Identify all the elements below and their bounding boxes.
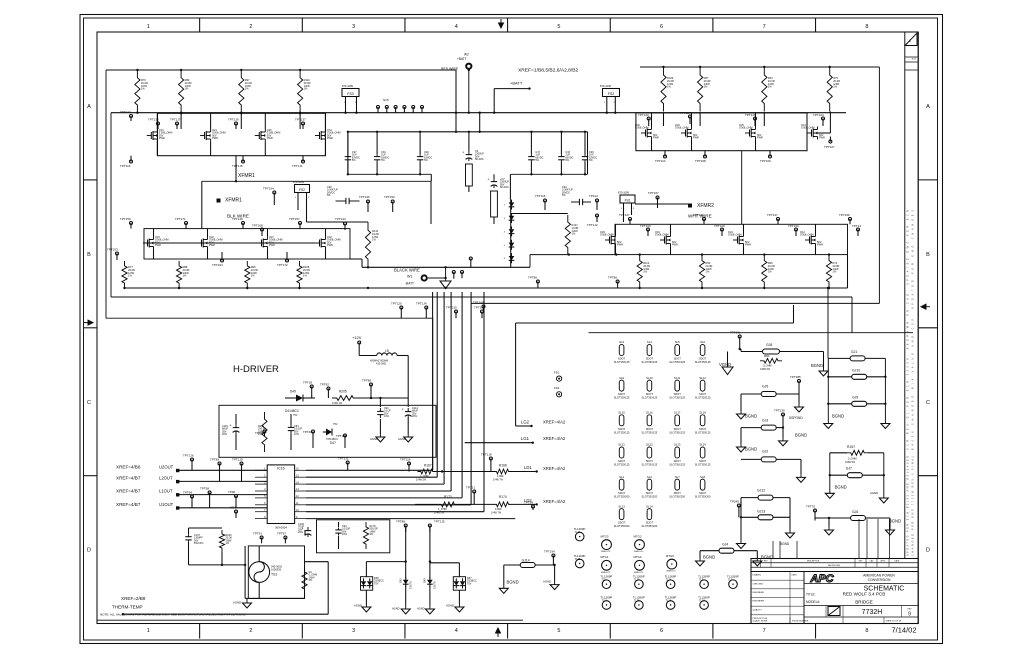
svg-text:D43: D43 <box>423 578 427 583</box>
wire cap bank rails <box>348 112 588 200</box>
svg-text:SDOT: SDOT <box>646 427 654 431</box>
svg-text:TPT127: TPT127 <box>619 213 630 217</box>
resistor R76 <box>135 69 148 114</box>
ground AGND TS1 <box>233 598 252 608</box>
svg-text:FS1: FS1 <box>625 199 631 203</box>
svg-text:SL4: SL4 <box>647 340 652 344</box>
svg-text:LG2: LG2 <box>521 420 530 425</box>
svg-text:D: D <box>926 548 930 554</box>
svg-text:GJ9: GJ9 <box>852 396 858 400</box>
svg-text:2: 2 <box>249 628 252 634</box>
resistor R87 <box>698 66 711 112</box>
svg-text:XREF=4/B7: XREF=4/B7 <box>116 502 141 507</box>
svg-text:TPT152: TPT152 <box>384 195 395 199</box>
svg-text:0.008_OHM: 0.008_OHM <box>635 127 648 130</box>
wire fetbox to xfmr <box>235 156 237 183</box>
svg-text:XREF=4/A2: XREF=4/A2 <box>543 436 566 441</box>
capacitor C114 <box>402 398 419 434</box>
testpoint TPT116m <box>535 194 547 210</box>
resistor R144 <box>307 222 380 268</box>
svg-text:TPT164: TPT164 <box>212 263 223 267</box>
wire gj13 down <box>741 517 790 540</box>
svg-text:TL12: TL12 <box>575 558 581 561</box>
testpoint TPT46 <box>303 430 315 448</box>
wire FET leads left box <box>157 113 325 155</box>
svg-text:TPT86: TPT86 <box>608 276 617 280</box>
wire stair 2 <box>111 113 852 333</box>
testpoint TPT21 <box>466 486 476 505</box>
svg-text:TPT1J5: TPT1J5 <box>434 520 445 524</box>
testpoint TPT1J1c <box>338 457 349 471</box>
svg-text:TPT88: TPT88 <box>362 379 371 383</box>
center mark arrow left <box>84 320 93 325</box>
testpoint TPT91b <box>253 532 263 544</box>
node W2 drop <box>468 69 470 114</box>
svg-text:L5: L5 <box>385 349 389 353</box>
note text <box>100 613 246 617</box>
ground BGND gj left <box>824 421 833 429</box>
svg-text:TPT1J2: TPT1J2 <box>587 223 598 227</box>
svg-text:SL23: SL23 <box>674 443 681 447</box>
svg-text:SDOT: SDOT <box>674 392 682 396</box>
pad TL7 <box>727 575 739 589</box>
svg-text:TPT88: TPT88 <box>396 520 405 524</box>
svg-text:SL21: SL21 <box>618 443 625 447</box>
svg-text:TPT107: TPT107 <box>824 145 835 149</box>
resistor GJ14 <box>504 559 556 586</box>
svg-text:XFMR1: XFMR1 <box>238 173 255 179</box>
svg-text:GJ13: GJ13 <box>757 510 765 514</box>
svg-text:GJ6: GJ6 <box>852 510 858 514</box>
center mark arrow right <box>921 304 930 309</box>
svg-text:TPT1J6: TPT1J6 <box>183 454 194 458</box>
ground BGND gj right <box>881 421 890 429</box>
testpoint posts near W1 <box>452 257 472 279</box>
svg-text:MTG3: MTG3 <box>601 535 609 539</box>
resistor R1 <box>245 567 317 598</box>
svg-text:+BATT: +BATT <box>510 81 523 86</box>
svg-text:TL8: TL8 <box>699 579 704 582</box>
svg-text:TPT46: TPT46 <box>303 430 312 434</box>
testpoint TPT13 <box>852 224 861 236</box>
svg-text:TPT153: TPT153 <box>107 248 118 252</box>
svg-text:7732H: 7732H <box>862 609 883 616</box>
svg-text:SL18: SL18 <box>699 411 706 415</box>
svg-text:AGND: AGND <box>233 601 241 605</box>
pad TL15 <box>633 596 645 610</box>
svg-text:PWR: PWR <box>327 244 333 247</box>
wire gate bus <box>111 112 846 114</box>
svg-text:PWR: PWR <box>745 244 751 247</box>
svg-text:TPT120: TPT120 <box>638 113 649 117</box>
fiducial FD1 <box>554 371 562 382</box>
ground BGND gj3 <box>779 433 808 446</box>
svg-text:2: 2 <box>249 24 252 30</box>
testpoint TPT101 <box>336 434 347 448</box>
svg-text:PWR: PWR <box>209 244 215 247</box>
svg-text:TL13: TL13 <box>634 579 640 582</box>
capacitor C93 <box>288 414 303 450</box>
fuse FS3 <box>342 84 359 114</box>
svg-text:+BATT: +BATT <box>457 57 467 61</box>
svg-text:TPT122: TPT122 <box>120 110 131 114</box>
svg-text:TPT116: TPT116 <box>400 458 411 462</box>
testpoint TPT1J6 <box>183 454 194 471</box>
svg-text:SDOT: SDOT <box>699 427 707 431</box>
svg-text:GJ3: GJ3 <box>762 419 768 423</box>
svg-text:TPT21: TPT21 <box>466 486 475 490</box>
testpoint TPT88b <box>396 520 407 533</box>
svg-text:SL15: SL15 <box>618 411 625 415</box>
svg-text:R84: R84 <box>764 354 770 358</box>
svg-text:5: 5 <box>557 24 560 30</box>
label XFMR2 <box>635 203 714 209</box>
center mark arrow top <box>499 19 504 28</box>
testpoint TPT137 <box>295 118 306 130</box>
svg-text:XFMR1: XFMR1 <box>225 198 242 204</box>
resistor R110 <box>298 69 311 114</box>
svg-text:ES07A: ES07A <box>410 581 413 589</box>
testpoint ND1 <box>230 506 238 519</box>
svg-text:D49: D49 <box>290 390 296 394</box>
svg-text:SDOT: SDOT <box>618 459 626 463</box>
svg-text:H-DRIVER: H-DRIVER <box>233 364 279 375</box>
testpoint TPT89 <box>210 458 221 482</box>
svg-text:SL9: SL9 <box>619 376 624 380</box>
testpoint TPT385 <box>790 375 801 394</box>
svg-text:TPT101: TPT101 <box>336 434 347 438</box>
testpoint TPT1J2 <box>587 214 599 227</box>
svg-text:TPT97: TPT97 <box>277 532 286 536</box>
testpoint TPT70 <box>806 505 817 521</box>
transistor Q20 <box>675 124 699 140</box>
svg-text:C: C <box>87 400 91 406</box>
svg-text:0.008_OHM: 0.008_OHM <box>655 234 668 237</box>
svg-text:SDOT: SDOT <box>646 392 654 396</box>
resistor R77 <box>122 261 135 289</box>
svg-text:BGND: BGND <box>703 555 715 560</box>
svg-text:MTG4: MTG4 <box>634 555 642 559</box>
svg-text:TPT194: TPT194 <box>544 550 555 554</box>
svg-text:SDOT: SDOT <box>618 392 626 396</box>
svg-text:1/4W 5%: 1/4W 5% <box>416 479 427 482</box>
svg-text:20%: 20% <box>222 433 228 436</box>
wire LG1 net <box>465 436 566 444</box>
wire vertical bundle <box>433 292 484 512</box>
svg-text:SL22: SL22 <box>646 443 653 447</box>
svg-text:SDOT: SDOT <box>674 491 682 495</box>
svg-text:TPT149: TPT149 <box>232 217 243 221</box>
svg-text:TPT1J4: TPT1J4 <box>416 302 427 306</box>
resistor GJ8 <box>739 343 801 354</box>
svg-text:TPT239: TPT239 <box>774 409 785 413</box>
testpoint TPT167 <box>648 191 659 208</box>
svg-text:+: + <box>402 408 404 412</box>
ground at W1 <box>440 266 451 288</box>
svg-text:BGND: BGND <box>795 433 807 438</box>
resistor R94 <box>762 66 775 112</box>
pad TL12 <box>574 554 586 568</box>
svg-text:GJ14: GJ14 <box>522 559 530 563</box>
label XFMR1 second <box>217 198 243 204</box>
svg-text:1: 1 <box>909 39 911 43</box>
testpoint TPT1J4b <box>416 302 428 319</box>
node N15 posts <box>377 98 424 113</box>
label BGND gj6 <box>889 519 901 524</box>
wire LG2 net <box>516 323 566 427</box>
svg-text:SL7: SL7 <box>675 475 680 479</box>
svg-text:NOTE: ALL VALUES ARE FOR REFER: NOTE: ALL VALUES ARE FOR REFERENCE ONLY.… <box>100 613 246 617</box>
wire drops right box <box>664 113 765 126</box>
transistor Q14 <box>147 129 172 142</box>
resistor GJ13 <box>740 510 790 520</box>
svg-text:FD2: FD2 <box>554 386 560 390</box>
svg-text:75V: 75V <box>293 414 298 417</box>
svg-text:369-0004: 369-0004 <box>275 526 287 530</box>
svg-text:6: 6 <box>660 628 663 634</box>
svg-text:TPT147: TPT147 <box>767 213 778 217</box>
pad TL14 <box>601 596 613 610</box>
testpoint TPT152 <box>384 195 395 212</box>
capacitor C26 <box>582 131 597 176</box>
capacitor C47 <box>528 131 543 176</box>
svg-text:XREF=4/B6: XREF=4/B6 <box>116 464 141 469</box>
testpoint TPT1J9 <box>228 118 239 130</box>
svg-text:TPT157: TPT157 <box>289 217 300 221</box>
svg-text:SCALE: NONE: SCALE: NONE <box>753 620 768 623</box>
svg-text:SL11: SL11 <box>674 376 681 380</box>
label U2OUT <box>116 464 267 472</box>
svg-text:TPT18: TPT18 <box>303 381 312 385</box>
wire right h4 <box>516 305 794 323</box>
testpoint TPT1J5b <box>232 156 245 168</box>
svg-text:SMBOLT0: SMBOLT0 <box>601 572 611 574</box>
wire top-right rail <box>640 67 879 303</box>
svg-text:A: A <box>87 104 91 110</box>
svg-text:MODEL#:: MODEL#: <box>806 600 820 604</box>
fuse FS2b <box>293 180 310 222</box>
svg-text:XREF=2/B8: XREF=2/B8 <box>121 596 146 601</box>
svg-text:TPT82: TPT82 <box>320 383 329 387</box>
ground gj6 r <box>886 527 895 535</box>
svg-text:5: 5 <box>557 628 560 634</box>
svg-text:1/4W 1%: 1/4W 1% <box>332 402 343 405</box>
svg-text:1/4W 7%: 1/4W 7% <box>491 512 502 515</box>
svg-text:AGND: AGND <box>870 491 878 495</box>
inductor L5 <box>359 349 408 398</box>
slot row SL3 <box>614 340 711 364</box>
svg-text:ES07A: ES07A <box>434 581 437 589</box>
wire FET leads midleft box <box>154 229 326 259</box>
svg-text:20%: 20% <box>298 531 304 534</box>
date 7/14/02 <box>891 626 916 635</box>
svg-text:XREF=4/A2: XREF=4/A2 <box>543 420 566 425</box>
svg-text:SLOT35X200: SLOT35X200 <box>669 495 685 499</box>
svg-text:RED WOLF 3.4 PCB: RED WOLF 3.4 PCB <box>843 592 886 597</box>
svg-text:70V: 70V <box>374 582 379 585</box>
svg-text:PWR: PWR <box>327 137 333 140</box>
ground arrow gj4 left <box>737 541 746 549</box>
svg-text:MTG1: MTG1 <box>601 555 609 559</box>
svg-text:SMBOLT0: SMBOLT0 <box>634 551 644 553</box>
center mark arrow bottom <box>496 628 501 637</box>
transistor Q24 <box>728 231 751 247</box>
svg-text:TPT193: TPT193 <box>788 224 799 228</box>
svg-text:R157: R157 <box>847 445 855 449</box>
svg-text:PWR: PWR <box>159 137 165 140</box>
resistor GJ9 <box>828 396 885 407</box>
svg-text:SDOT: SDOT <box>674 459 682 463</box>
fuse FS1 <box>618 191 635 223</box>
box top-right MOSFETs <box>636 113 807 151</box>
resistor GJ3 <box>741 419 784 445</box>
svg-text:BGND: BGND <box>811 363 823 368</box>
svg-text:TPT135: TPT135 <box>148 118 159 122</box>
testpoint TPT157 <box>289 217 302 229</box>
transformer XFMR1 outline <box>202 181 431 228</box>
svg-text:3: 3 <box>352 24 355 30</box>
svg-text:TL11: TL11 <box>666 579 672 582</box>
svg-text:SL10: SL10 <box>646 376 653 380</box>
slot row SL21 <box>614 443 711 467</box>
wire mid-right bottom rail <box>847 255 849 288</box>
resistor GJ12 <box>741 489 790 518</box>
pad MTG2 <box>634 535 645 554</box>
ground AGND D43 <box>417 606 434 614</box>
svg-text:SLOT35X200: SLOT35X200 <box>642 495 658 499</box>
svg-text:SDOT: SDOT <box>699 491 707 495</box>
svg-text:DSPGND: DSPGND <box>789 416 803 420</box>
svg-text:PWR: PWR <box>817 244 823 247</box>
transistor Q31 <box>315 129 340 142</box>
svg-text:SL12: SL12 <box>699 376 706 380</box>
diode D58 <box>361 560 407 604</box>
svg-text:CONVERSION: CONVERSION <box>868 578 891 582</box>
svg-text:PWR: PWR <box>672 244 678 247</box>
svg-text:BRIDGE: BRIDGE <box>855 599 873 604</box>
drawing frame <box>97 32 918 624</box>
svg-text:D47: D47 <box>330 441 336 445</box>
ground AGND D58 <box>354 604 371 613</box>
testpoint TPT135 <box>148 118 160 130</box>
svg-text:TPT1J5: TPT1J5 <box>232 164 243 168</box>
svg-text:TPT80: TPT80 <box>528 276 537 280</box>
testpoint TP249 <box>730 500 740 518</box>
ground DSPGND <box>789 404 804 420</box>
svg-text:TL16: TL16 <box>666 600 672 603</box>
testpoint TPT120b <box>391 302 403 319</box>
svg-text:B: B <box>87 252 91 258</box>
svg-text:TPT154: TPT154 <box>263 187 274 191</box>
resistor R168 <box>493 464 566 482</box>
diode D43 <box>423 540 437 606</box>
svg-text:+: + <box>488 178 490 182</box>
terminal W1 black wire <box>394 268 447 286</box>
resistor GJ4 <box>700 543 757 559</box>
svg-text:IC16: IC16 <box>277 467 285 471</box>
svg-text:C: C <box>926 400 930 406</box>
svg-text:W2: W2 <box>464 53 469 57</box>
label H-DRIVER <box>233 364 279 375</box>
svg-text:SLOT35X125: SLOT35X125 <box>614 396 630 400</box>
svg-text:THERM-TEMP: THERM-TEMP <box>112 605 143 610</box>
svg-text:PWR: PWR <box>653 137 659 140</box>
svg-text:SLOT35X125: SLOT35X125 <box>669 430 685 434</box>
svg-text:TPT163: TPT163 <box>640 224 651 228</box>
svg-text:DATE: DATE <box>792 574 798 577</box>
slot row SL9 <box>614 376 711 400</box>
svg-text:1: 1 <box>147 628 150 634</box>
svg-text:SLOT35X200: SLOT35X200 <box>614 524 630 528</box>
transistor Q30 <box>635 124 659 140</box>
testpoint TPT94 <box>183 491 194 508</box>
svg-text:0.008_OHM: 0.008_OHM <box>675 127 688 130</box>
svg-text:TPT1J1: TPT1J1 <box>292 164 303 168</box>
svg-text:D42: D42 <box>399 578 403 583</box>
testpoint TPT169m <box>473 301 485 312</box>
transistor Q22 <box>197 236 222 250</box>
svg-text:AGND: AGND <box>417 607 425 611</box>
svg-text:SDOT: SDOT <box>699 459 707 463</box>
testpoint TPT1J8 <box>481 453 492 472</box>
ground AGND under C91 <box>370 434 385 442</box>
resistor R206 <box>219 530 232 565</box>
wire FET leads midright box <box>616 224 816 254</box>
svg-text:SDOT: SDOT <box>618 521 626 525</box>
svg-text:75V: 75V <box>333 423 338 426</box>
svg-text:BLACK WIRE: BLACK WIRE <box>394 268 420 273</box>
testpoint TPT98b <box>200 487 211 508</box>
svg-text:SDOT: SDOT <box>699 357 707 361</box>
transistor Q32 <box>315 236 340 250</box>
svg-text:SLOT35X200: SLOT35X200 <box>614 495 630 499</box>
testpoint TPT122 <box>120 110 133 121</box>
pad TL9 <box>601 575 613 589</box>
svg-text:1/8W 5%: 1/8W 5% <box>760 368 771 371</box>
svg-text:ECN: ECN <box>912 59 917 61</box>
svg-text:SL6: SL6 <box>700 340 705 344</box>
ground BGND gj13 <box>780 530 795 546</box>
grid band letters <box>84 104 938 554</box>
wire C107 R206 bottom <box>189 528 247 598</box>
svg-text:SLOT35X200: SLOT35X200 <box>695 495 711 499</box>
svg-text:SLOT35X125: SLOT35X125 <box>614 463 630 467</box>
ground AGND under C114 <box>398 434 413 442</box>
pad TL13 <box>633 575 645 589</box>
testpoint TPT104 <box>474 306 485 319</box>
testpoint TPT239 <box>774 409 785 428</box>
svg-text:TPT109: TPT109 <box>760 159 771 163</box>
svg-text:SL24: SL24 <box>699 443 706 447</box>
slot row SL15 <box>614 411 711 435</box>
svg-text:TPT120: TPT120 <box>391 302 402 306</box>
testpoint TPT129 <box>714 224 725 236</box>
svg-text:VGND: VGND <box>719 362 731 367</box>
resistor R88 <box>177 261 190 289</box>
label L2OUT <box>116 475 267 483</box>
testpoint TPT171 <box>175 217 188 229</box>
testpoint TPT86 <box>608 276 619 289</box>
transistor Q21 <box>200 129 225 142</box>
svg-text:0.008_OHM: 0.008_OHM <box>739 127 752 130</box>
wire top-left rail +BATT <box>106 70 456 318</box>
capacitor C34 <box>374 131 389 176</box>
svg-text:TPT159: TPT159 <box>120 217 131 221</box>
svg-text:70V: 70V <box>467 582 472 585</box>
svg-text:870-1099: 870-1099 <box>293 180 305 184</box>
svg-text:SLOT35X125: SLOT35X125 <box>695 430 711 434</box>
ground BGND gj3b <box>737 444 758 452</box>
